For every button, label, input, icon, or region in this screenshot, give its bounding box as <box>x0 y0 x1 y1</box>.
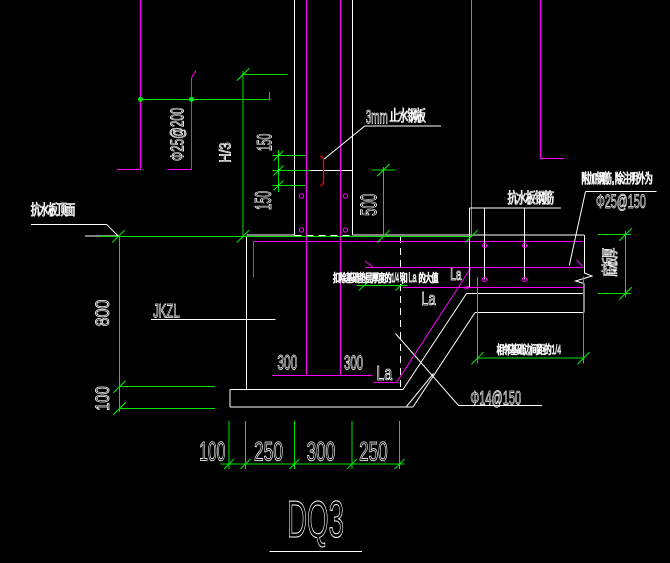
tick at level line left <box>112 230 124 242</box>
Phi25@200 callout line <box>141 98 270 100</box>
slab rebar section circle <box>522 277 526 281</box>
label: top surface of waterproof slab <box>31 202 40 216</box>
bar B top tick <box>192 71 197 79</box>
slab thickness dim line <box>625 231 627 297</box>
label: additional rebar note <box>582 172 589 185</box>
3mm label underline <box>365 125 441 127</box>
wall horizontal bar section circle <box>343 194 347 198</box>
slab rebar section circle <box>482 277 486 281</box>
svg-text:150: 150 <box>252 134 276 151</box>
svg-text:La: La <box>376 362 392 385</box>
svg-text:300: 300 <box>277 351 297 375</box>
label: waterproof slab rebar <box>508 190 517 204</box>
svg-text:250: 250 <box>254 437 283 467</box>
svg-text:La: La <box>450 265 462 284</box>
additional rebar (Phi25@150) <box>366 267 583 269</box>
outer wall bar B <box>191 78 193 170</box>
top of slab right of wall <box>353 234 585 236</box>
small arrow on bottom rebar <box>462 286 469 290</box>
slab bottom line <box>467 293 585 295</box>
wall horizontal bar section circle <box>299 194 303 198</box>
break mark lower stroke <box>407 374 434 407</box>
svg-text:La: La <box>421 288 436 309</box>
outer wall bar A <box>140 0 142 170</box>
svg-text:H/3: H/3 <box>217 142 234 163</box>
label: deduction note (mixed) <box>333 272 339 283</box>
svg-text:100: 100 <box>93 386 114 410</box>
ext line at leveling bottom <box>120 408 216 410</box>
svg-text:1/4: 1/4 <box>552 342 562 357</box>
top of JKZL left of wall <box>247 234 295 236</box>
leveling course strip under JKZL <box>230 389 403 391</box>
tick at level line right <box>465 230 477 242</box>
svg-text:100: 100 <box>199 437 225 467</box>
quarter spacing dim line <box>478 357 584 359</box>
JKZL label line <box>151 319 276 321</box>
bottom hooks of wall dowel bars (300 legs) <box>273 375 373 377</box>
slab rebar section circle <box>522 243 526 247</box>
title underline <box>270 551 363 553</box>
wall base dashed line <box>295 235 353 237</box>
3mm label leader <box>324 126 365 159</box>
wall rebar bar D (inner right) <box>340 0 342 376</box>
additional rebar right end tick <box>577 260 584 267</box>
svg-text:300: 300 <box>344 353 363 375</box>
callout dot on bar A <box>138 97 143 102</box>
top rebar left hook down <box>253 242 255 278</box>
slab right edge with break symbol <box>576 235 593 313</box>
ext line 150 top <box>273 155 306 157</box>
svg-text:800: 800 <box>93 300 114 327</box>
JKZL right dashed boundary <box>400 236 402 388</box>
JKZL left edge <box>246 236 248 390</box>
tick at level line / H3 bottom <box>237 230 249 242</box>
slab bottom rebar <box>403 287 583 289</box>
slab bar line 3 <box>524 208 526 280</box>
bar A bottom hook <box>117 169 141 171</box>
construction joint line in wall <box>295 170 353 172</box>
ext line 150 bottom <box>273 184 306 186</box>
bottom ext line x=294.5 <box>294 421 296 469</box>
left dim line (800/100) <box>119 236 121 412</box>
wall horizontal bar section circle <box>343 228 347 232</box>
step top diagonal D1 <box>403 294 467 390</box>
150/150 dim line <box>278 150 280 192</box>
bottom dim line <box>221 463 405 465</box>
top-right rebar bar E <box>540 0 542 159</box>
bent-up bar with La hook <box>374 269 471 383</box>
svg-text:DQ3: DQ3 <box>287 491 344 549</box>
leveling bottom line under slab <box>475 312 584 314</box>
callout end tick <box>269 92 271 101</box>
slab rebar label underline <box>470 207 562 209</box>
additional rebar leader <box>569 192 585 266</box>
svg-text:1/4: 1/4 <box>392 270 400 285</box>
step bottom diagonal D2 <box>413 313 475 408</box>
bottom ext line x=399.5 <box>399 421 401 469</box>
additional rebar left end tick <box>365 261 374 268</box>
bar B bottom hook <box>168 169 192 171</box>
label underline <box>31 223 107 225</box>
deduction dim line <box>357 285 408 287</box>
svg-text:La: La <box>409 270 417 285</box>
bar E hook to right <box>541 158 565 160</box>
svg-text:Φ14@150: Φ14@150 <box>470 387 521 409</box>
500 dim line <box>383 167 385 236</box>
additional rebar underline <box>586 191 657 193</box>
ext line at joint <box>273 170 311 172</box>
long green extension line from top <box>471 0 473 236</box>
ext line right (quarter dim) <box>583 277 585 364</box>
H/3 dim line <box>242 71 244 236</box>
wall rebar bar C (inner left) <box>306 0 308 376</box>
ext line at footing top <box>120 386 216 388</box>
3mm waterstop steel plate (red) <box>321 156 324 187</box>
break mark across sloped step + leader of Phi14@150 <box>396 334 543 406</box>
bottom ext line x=245.5 <box>245 421 247 469</box>
top-of-slab level line (green) <box>100 235 472 237</box>
svg-text:250: 250 <box>359 437 388 467</box>
svg-text:150: 150 <box>250 191 276 210</box>
bottom ext line x=229 <box>228 421 230 469</box>
label: slab thickness (rotated) <box>601 248 617 276</box>
white stub of level line <box>85 235 118 237</box>
svg-text:,: , <box>611 171 615 186</box>
ext line left (quarter dim) <box>477 277 479 364</box>
ext bottom <box>598 292 631 294</box>
wall horizontal bar section circle <box>299 228 303 232</box>
H/3 top ext line <box>243 74 288 76</box>
wall left face line <box>294 0 296 235</box>
wall right face line <box>352 0 354 235</box>
svg-text:500: 500 <box>356 194 382 216</box>
svg-text:300: 300 <box>307 437 336 467</box>
label leader <box>107 224 119 236</box>
svg-text:Φ25@200: Φ25@200 <box>166 108 187 161</box>
leader drop / slab bar line 1 <box>469 208 471 287</box>
slab rebar section circle <box>482 243 486 247</box>
ext top <box>598 234 631 236</box>
label: quarter of adjacent foundation spacing <box>497 344 504 355</box>
500 top ext line <box>372 169 396 171</box>
callout dot on bar B <box>189 97 194 102</box>
slab bar line 2 <box>484 208 486 280</box>
svg-text:Φ25@150: Φ25@150 <box>596 191 646 213</box>
slab/JKZL top rebar <box>254 241 584 243</box>
bottom ext line x=352 <box>351 421 353 469</box>
